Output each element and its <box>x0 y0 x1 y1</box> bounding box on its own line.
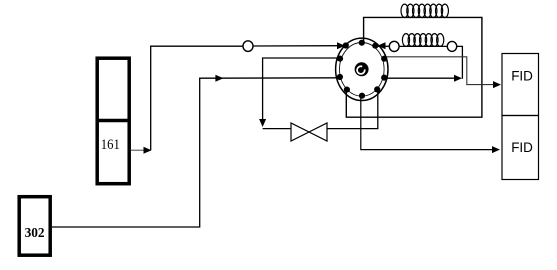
valve port 9 <box>337 56 343 62</box>
arrow on 302 carrier line <box>215 75 223 82</box>
union circle left of coil 2 <box>389 41 399 51</box>
wire valve port 6 to column loop bottom <box>346 17 482 117</box>
wire branch to needle valve <box>263 128 291 130</box>
arrow at junction <box>454 75 462 82</box>
valve port 6 (bottom) <box>359 93 365 99</box>
rotary valve inner port ring <box>340 43 385 97</box>
valve port 4 <box>381 75 387 81</box>
arrow into valve port 10 <box>337 42 345 49</box>
svg-text:FID: FID <box>511 140 533 155</box>
valve port 10 <box>343 42 349 48</box>
valve port 7 <box>344 87 350 93</box>
svg-text:302: 302 <box>25 226 45 241</box>
arrow into valve port 2 from loop <box>378 42 386 49</box>
wire arrow to union left <box>378 45 389 47</box>
valve port 3 <box>381 56 387 62</box>
wire valve port 2 to FID1 (bypass) <box>386 57 497 85</box>
rotary valve body outer ellipse <box>336 38 388 100</box>
column coil 2 <box>402 34 443 47</box>
valve port 1 (top) <box>359 40 365 46</box>
wire from 161 to arrow <box>131 149 144 151</box>
valve port 5 <box>374 86 380 92</box>
wire valve port 3 to junction arrow <box>385 77 458 79</box>
wire valve port 9 to needle valve branch <box>263 58 341 120</box>
wire union to valve port 10 <box>253 45 341 47</box>
wire riser from 161 line up <box>151 46 244 150</box>
arrow down on branch <box>259 119 266 127</box>
svg-text:161: 161 <box>101 137 120 153</box>
svg-text:FID: FID <box>511 69 533 84</box>
union circle on carrier line <box>243 41 253 52</box>
wire under coil 2 <box>399 45 447 47</box>
valve port 8 <box>337 74 343 80</box>
union circle right of coil 2 <box>447 41 456 51</box>
arrow into FID2 <box>492 146 500 153</box>
wire from 302 to valve port 8 <box>52 78 341 227</box>
FID detector 1 box <box>502 54 539 116</box>
wire needle valve to valve port 5 <box>327 91 378 129</box>
valve rotor center <box>355 62 369 76</box>
arrow into riser at 161 <box>144 147 152 154</box>
wire valve port 7 to FID2 <box>361 96 497 150</box>
arrow into FID1 <box>493 81 501 88</box>
wire coil 2 out, down to junction <box>457 46 463 78</box>
FID detector 2 box <box>502 116 539 180</box>
box 302 (sample source) <box>19 197 50 256</box>
valve port 2 <box>372 43 378 49</box>
column coil 1 (top) <box>401 4 448 17</box>
needle valve (restrictor) <box>291 123 327 141</box>
box 161 (detector oven) <box>97 58 129 184</box>
